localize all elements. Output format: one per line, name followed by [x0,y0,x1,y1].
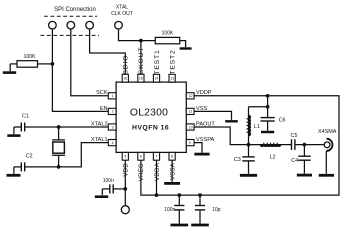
svg-text:C6: C6 [279,118,286,124]
svg-text:CLK OUT: CLK OUT [111,11,133,17]
svg-text:VSSPA: VSSPA [196,137,215,143]
svg-text:100K: 100K [23,54,36,60]
svg-text:100K: 100K [162,31,174,37]
svg-text:C2: C2 [26,153,33,159]
svg-text:HVQFN 16: HVQFN 16 [132,124,169,131]
svg-text:7: 7 [156,155,158,159]
svg-text:EN: EN [100,106,108,112]
svg-text:C5: C5 [291,133,298,139]
svg-text:11: 11 [189,110,193,114]
svg-text:6: 6 [140,155,142,159]
svg-text:1: 1 [112,94,114,98]
svg-text:CKOUT: CKOUT [138,47,145,75]
svg-text:TEST1: TEST1 [154,49,161,74]
svg-text:2: 2 [112,110,114,114]
svg-text:VDD: VDD [124,163,130,177]
svg-text:VSSA: VSSA [170,163,176,180]
svg-text:100n: 100n [103,178,114,184]
svg-text:9: 9 [189,141,191,145]
svg-text:TEST2: TEST2 [169,49,176,74]
svg-text:8: 8 [171,155,173,159]
svg-text:C4: C4 [291,158,298,164]
svg-text:XTAL1: XTAL1 [91,137,108,143]
svg-text:VREG: VREG [139,163,145,181]
svg-text:10: 10 [189,125,193,129]
svg-text:5: 5 [124,155,126,159]
svg-text:100n: 100n [164,207,175,213]
svg-text:PAOUT: PAOUT [196,121,215,127]
svg-text:C3: C3 [234,157,241,163]
svg-text:3: 3 [112,125,114,129]
svg-text:14: 14 [155,77,159,81]
svg-text:VSS: VSS [196,106,207,112]
svg-text:XTAL2: XTAL2 [91,121,108,127]
svg-text:L1: L1 [254,124,260,130]
svg-text:SDIO: SDIO [123,55,130,75]
svg-text:XTAL: XTAL [116,4,128,10]
svg-text:C1: C1 [22,114,29,120]
svg-text:4: 4 [112,141,114,145]
svg-text:13: 13 [170,77,174,81]
svg-text:10p: 10p [212,207,221,213]
svg-text:OL2300: OL2300 [130,108,168,119]
svg-text:SPI Connection: SPI Connection [54,7,96,13]
svg-text:L2: L2 [270,155,276,161]
svg-text:SCK: SCK [96,90,108,96]
svg-text:X4SMA: X4SMA [318,129,337,135]
svg-text:12: 12 [189,94,193,98]
svg-text:VDDA: VDDA [155,163,161,181]
svg-text:16: 16 [123,77,127,81]
svg-text:15: 15 [139,77,143,81]
svg-text:VDDP: VDDP [196,90,212,96]
